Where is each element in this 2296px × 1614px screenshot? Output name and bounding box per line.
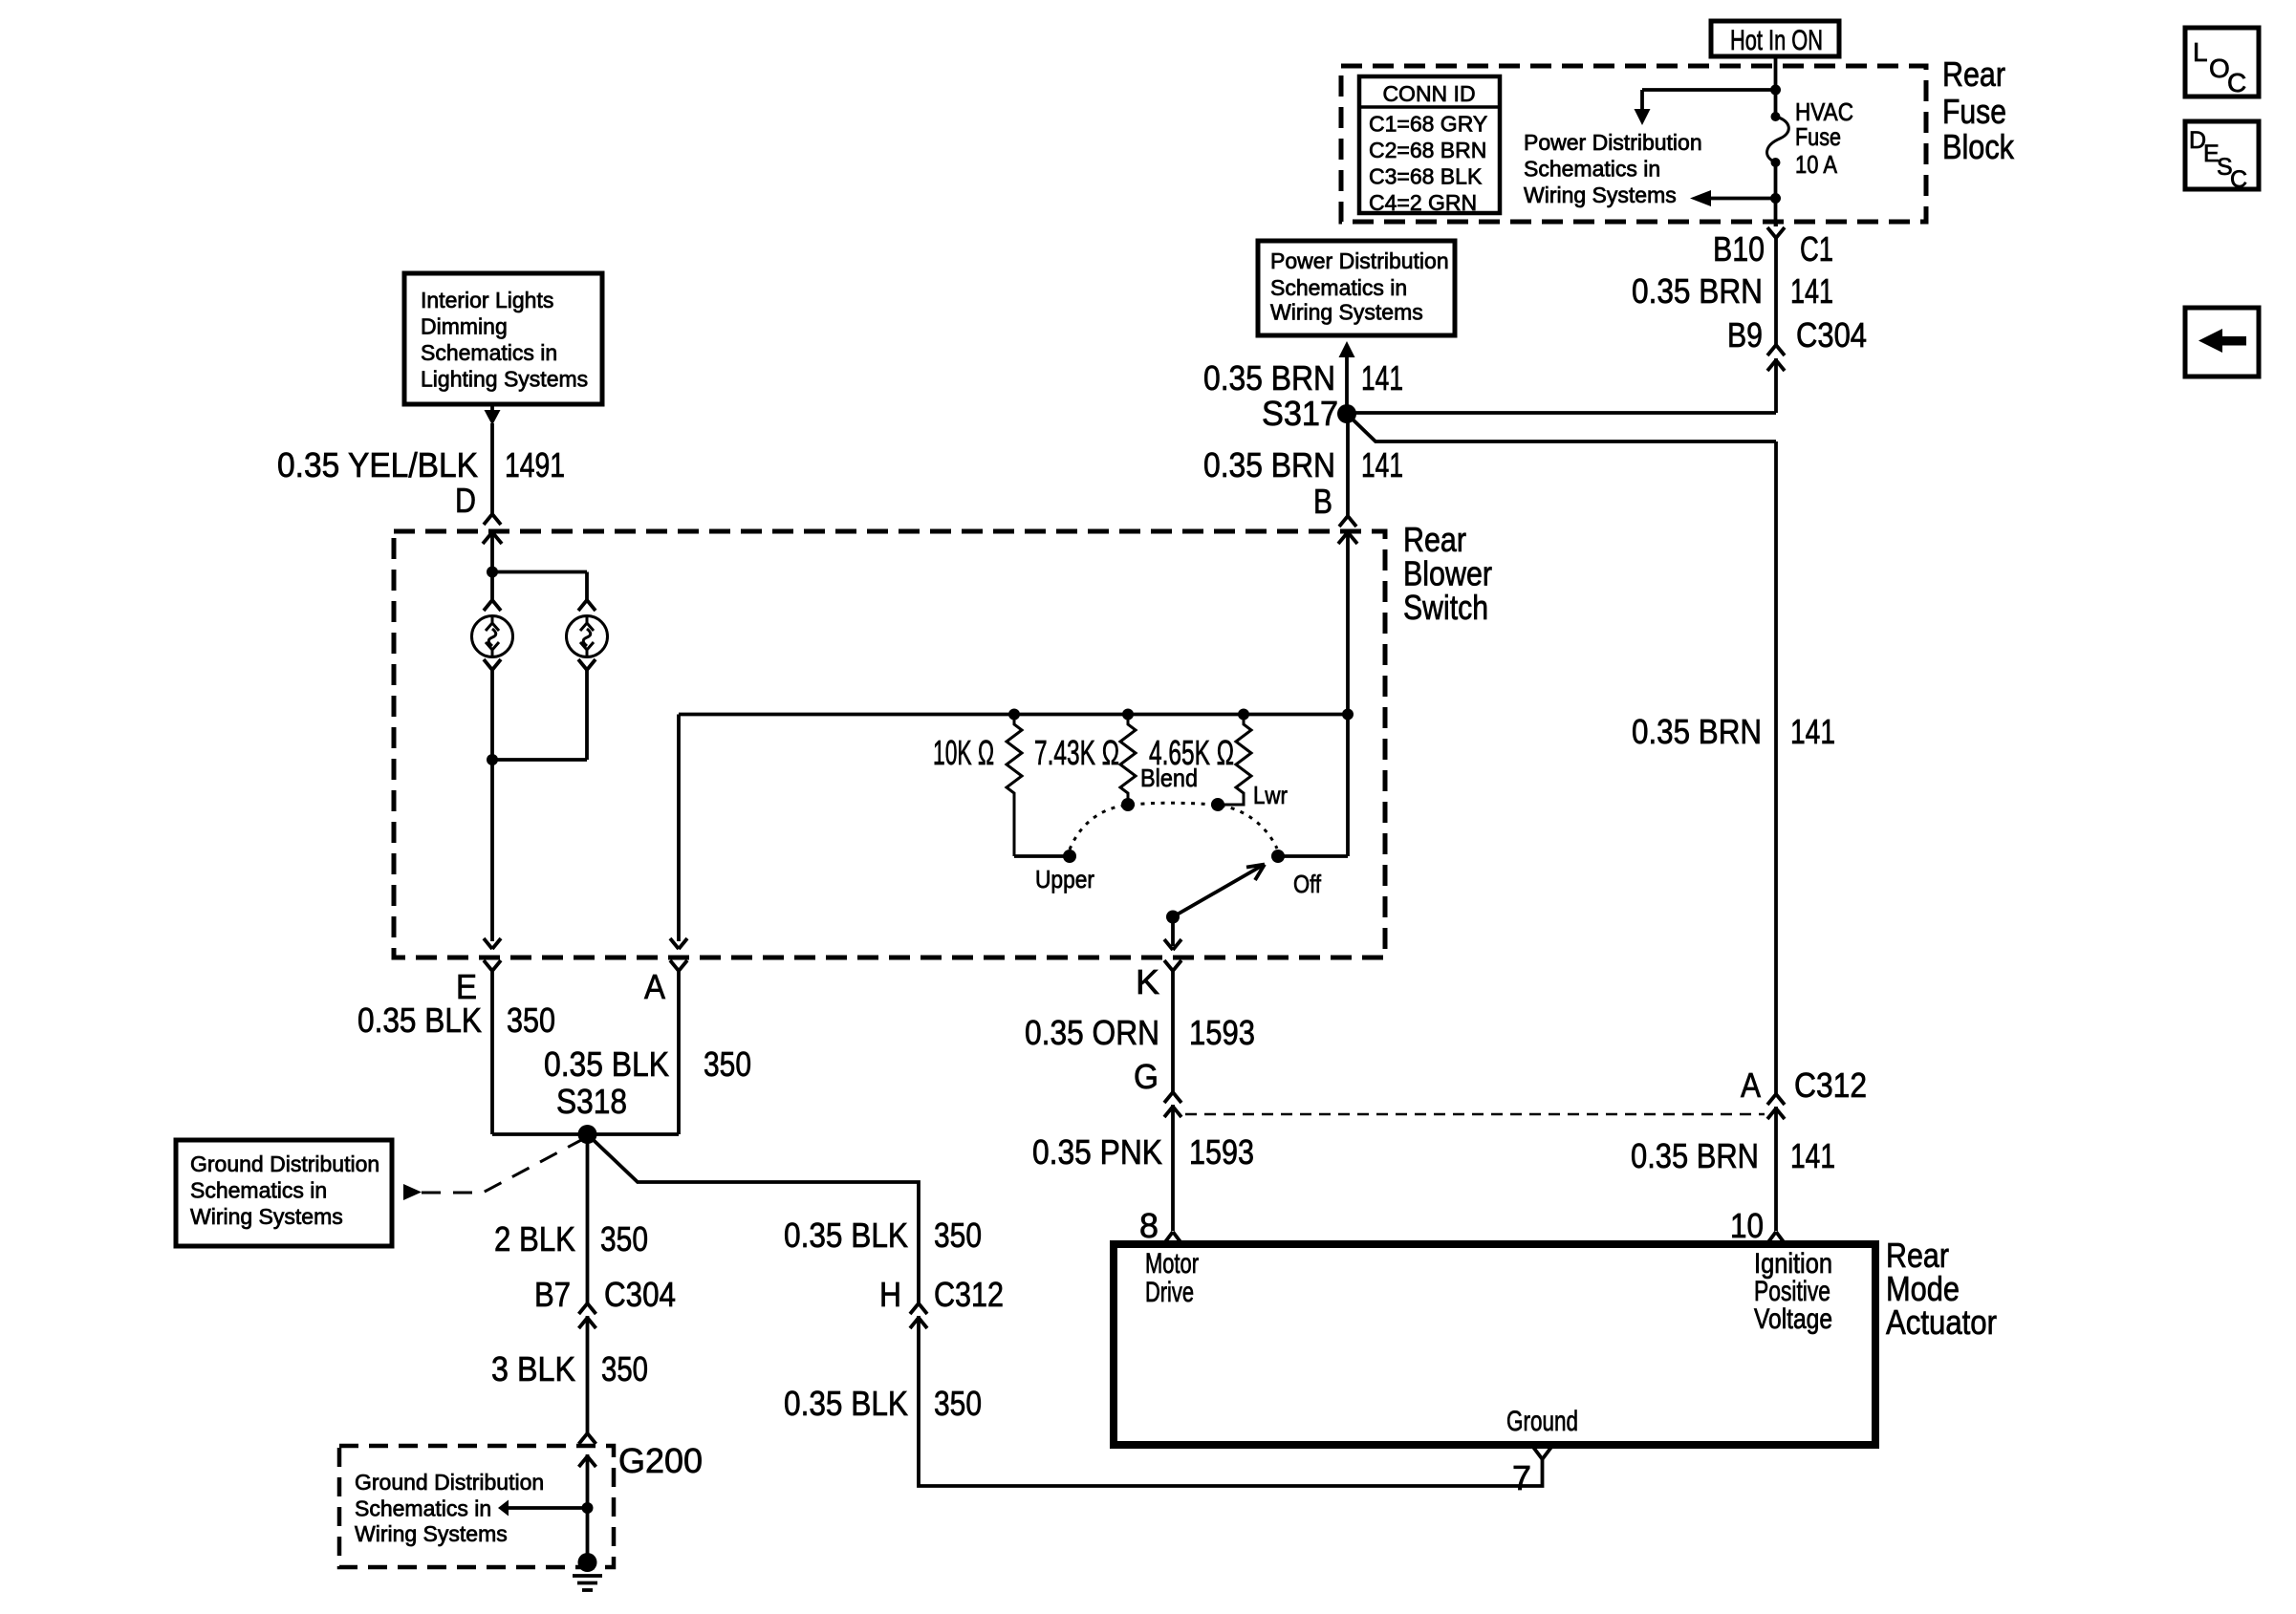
resistor R 10K	[1007, 715, 1022, 857]
node lamp bottom junction	[487, 754, 498, 765]
wire K down (0.35 ORN 1593)	[1171, 971, 1175, 1092]
svg-text:350: 350	[934, 1216, 982, 1255]
CONN ID table	[1359, 76, 1500, 215]
wire S318 down (2 BLK 350)	[586, 1134, 590, 1303]
node Lwr contact	[1211, 798, 1224, 811]
Rear Fuse Block dashed box	[1341, 66, 1926, 222]
Ground Distribution ref box (solid)	[176, 1140, 392, 1246]
svg-text:C3=68 BLK: C3=68 BLK	[1369, 164, 1483, 189]
node fuse feed junction	[1770, 85, 1781, 96]
svg-text:G200: G200	[618, 1441, 703, 1480]
svg-text:141: 141	[1790, 271, 1833, 311]
connector C312 pin A (right)	[1767, 1094, 1785, 1119]
wire Hot In ON to fuse	[1774, 56, 1778, 117]
wire H down to pin 7	[919, 1316, 1543, 1486]
wires into S318	[492, 1132, 588, 1136]
svg-text:Motor: Motor	[1145, 1248, 1199, 1280]
svg-text:Off: Off	[1293, 870, 1322, 898]
svg-text:Drive: Drive	[1145, 1277, 1194, 1308]
svg-text:0.35 BRN: 0.35 BRN	[1632, 271, 1763, 311]
svg-text:Lighting Systems: Lighting Systems	[421, 367, 588, 392]
wire A down	[677, 971, 681, 1134]
svg-text:Ground: Ground	[1506, 1406, 1578, 1437]
Rear Fuse Block label	[1942, 54, 2015, 166]
Hot In ON box	[1711, 21, 1839, 56]
node Off contact	[1271, 850, 1285, 863]
pin K fork below	[1164, 960, 1181, 971]
svg-text:B: B	[1313, 482, 1332, 521]
wire left w/ arrow	[508, 1506, 588, 1510]
svg-text:0.35 BRN: 0.35 BRN	[1631, 1136, 1759, 1175]
svg-text:Schematics in: Schematics in	[421, 340, 557, 365]
svg-text:C2=68 BRN: C2=68 BRN	[1369, 138, 1486, 162]
svg-text:1491: 1491	[505, 445, 565, 484]
svg-text:1593: 1593	[1189, 1132, 1254, 1172]
svg-text:Power Distribution: Power Distribution	[1270, 248, 1449, 273]
wire D to lamp junction	[490, 532, 494, 600]
svg-text:2 BLK: 2 BLK	[494, 1219, 575, 1259]
svg-text:7: 7	[1512, 1458, 1531, 1497]
svg-text:4.65K Ω: 4.65K Ω	[1149, 733, 1234, 772]
svg-text:0.35 YEL/BLK: 0.35 YEL/BLK	[277, 445, 478, 484]
svg-text:Fuse: Fuse	[1942, 92, 2006, 131]
wire E down	[490, 971, 494, 1134]
svg-text:0.35 BRN: 0.35 BRN	[1203, 445, 1335, 484]
svg-text:B7: B7	[534, 1275, 571, 1314]
svg-text:0.35 BLK: 0.35 BLK	[544, 1044, 669, 1084]
svg-text:B10: B10	[1713, 229, 1765, 269]
svg-text:7.43K Ω: 7.43K Ω	[1034, 733, 1119, 772]
dashed ref link to S318 with arrow	[403, 1184, 422, 1200]
wire fuse down	[1774, 162, 1778, 226]
wire Off to B riser	[1278, 854, 1348, 858]
pin 7 fork	[1534, 1448, 1551, 1459]
svg-text:CONN ID: CONN ID	[1382, 81, 1475, 106]
label 0.35 BRN 141 upper	[1203, 358, 1403, 398]
svg-text:10 A: 10 A	[1795, 150, 1838, 179]
svg-text:350: 350	[601, 1349, 648, 1388]
lamp L2	[567, 616, 608, 657]
svg-text:S318: S318	[556, 1082, 627, 1121]
wire branch left lower	[1710, 197, 1776, 201]
pin B arrow inside	[1338, 532, 1357, 544]
node S317	[1337, 404, 1356, 423]
svg-text:0.35 BLK: 0.35 BLK	[784, 1216, 908, 1255]
svg-text:C312: C312	[1794, 1065, 1867, 1105]
svg-text:350: 350	[600, 1219, 648, 1259]
node Upper contact	[1063, 850, 1076, 863]
pin D fork	[484, 514, 501, 525]
svg-text:H: H	[879, 1275, 901, 1314]
label 0.35 BRN 141 below S317	[1203, 445, 1403, 484]
svg-text:Hot In ON: Hot In ON	[1730, 25, 1823, 56]
Power Distribution ref box (mid)	[1258, 241, 1455, 335]
svg-text:350: 350	[507, 1001, 555, 1040]
LOC box	[2185, 28, 2259, 97]
connector C304 pin B7	[579, 1303, 596, 1328]
svg-text:Voltage: Voltage	[1754, 1303, 1832, 1335]
lamp L1	[472, 616, 513, 657]
Power Distribution note (in fuse block)	[1524, 130, 1702, 207]
arrow down (power distribution ref)	[1635, 109, 1651, 125]
svg-text:C: C	[2230, 166, 2247, 193]
arrow left (power distribution ref)	[1690, 190, 1711, 206]
wire A down (0.35 BRN 141)	[1774, 1107, 1778, 1231]
svg-text:S317: S317	[1262, 394, 1338, 433]
pin 8 fork	[1164, 1232, 1181, 1243]
wire B9 down to S317	[1774, 358, 1778, 413]
switch arm with arrow	[1173, 865, 1265, 917]
wire S317 diagonal to long riser	[1347, 414, 1776, 441]
node lamp top junction	[487, 567, 498, 578]
svg-text:Switch: Switch	[1403, 588, 1488, 627]
svg-text:B9: B9	[1727, 315, 1763, 355]
svg-text:Fuse: Fuse	[1795, 122, 1841, 151]
svg-text:G: G	[1134, 1057, 1159, 1096]
svg-text:Schematics in: Schematics in	[355, 1496, 491, 1521]
lamp L1 fork top	[484, 600, 501, 611]
svg-text:Schematics in: Schematics in	[190, 1178, 327, 1203]
svg-text:350: 350	[704, 1044, 751, 1084]
svg-text:C4=2 GRN: C4=2 GRN	[1369, 190, 1477, 215]
svg-text:Upper: Upper	[1035, 865, 1094, 893]
wire pin B down to bus	[1346, 532, 1350, 715]
node Blend contact	[1121, 798, 1135, 811]
svg-text:Lwr: Lwr	[1253, 781, 1288, 809]
ground G200 symbol	[573, 1553, 602, 1590]
pin E arrow inside	[484, 938, 501, 949]
DESC box	[2185, 121, 2259, 193]
svg-text:K: K	[1136, 962, 1159, 1001]
connector C304 pin B9	[1767, 345, 1785, 371]
pin E fork below	[484, 960, 501, 971]
svg-text:10: 10	[1730, 1206, 1764, 1245]
connector pin B fork	[1339, 516, 1356, 527]
Ground Distribution dashed box	[339, 1446, 614, 1567]
svg-text:0.35 ORN: 0.35 ORN	[1025, 1013, 1159, 1052]
wire A riser inside	[677, 715, 681, 942]
svg-text:C: C	[2227, 68, 2246, 97]
svg-text:Wiring Systems: Wiring Systems	[1524, 183, 1677, 207]
svg-text:Schematics in: Schematics in	[1524, 157, 1660, 182]
wire pivot down to pin K	[1171, 917, 1175, 947]
back-arrow box	[2185, 308, 2259, 377]
svg-text:Power Distribution: Power Distribution	[1524, 130, 1702, 155]
svg-text:C312: C312	[934, 1275, 1004, 1314]
svg-text:0.35 BLK: 0.35 BLK	[357, 1001, 482, 1040]
svg-text:8: 8	[1139, 1206, 1159, 1245]
resistor bus	[679, 713, 1348, 717]
svg-text:Dimming: Dimming	[421, 314, 508, 339]
svg-text:A: A	[644, 967, 665, 1006]
pin A fork below	[670, 960, 687, 971]
svg-text:Ground Distribution: Ground Distribution	[355, 1470, 544, 1495]
connector C1 pin B10	[1767, 222, 1785, 238]
Interior Lights ref box	[404, 273, 602, 404]
node S318	[578, 1125, 597, 1144]
connector C312 pin G	[1164, 1092, 1181, 1117]
wire S318 to H riser	[588, 1134, 920, 1303]
wire branch left	[1642, 88, 1776, 92]
pin 10 fork	[1767, 1232, 1785, 1243]
svg-text:0.35 PNK: 0.35 PNK	[1032, 1132, 1162, 1172]
svg-text:141: 141	[1361, 445, 1403, 484]
svg-text:141: 141	[1790, 1136, 1835, 1175]
svg-text:Rear: Rear	[1942, 54, 2005, 94]
wire S317 up to box with arrow	[1345, 355, 1349, 414]
svg-text:C304: C304	[604, 1275, 676, 1314]
svg-text:D: D	[455, 481, 476, 520]
wire G down (0.35 PNK 1593)	[1171, 1105, 1175, 1231]
node wiper pivot	[1166, 911, 1180, 924]
connector G200	[579, 1433, 596, 1467]
svg-text:0.35 BRN: 0.35 BRN	[1632, 712, 1762, 751]
svg-text:Ground Distribution: Ground Distribution	[190, 1151, 379, 1176]
wire B10 to B9, 0.35 BRN 141	[1774, 238, 1778, 345]
wire 10K to Upper contact	[1014, 854, 1070, 858]
svg-text:0.35 BRN: 0.35 BRN	[1203, 358, 1335, 398]
svg-text:1593: 1593	[1189, 1013, 1255, 1052]
pin K arrow inside	[1164, 939, 1181, 950]
switch wiper arc (dotted)	[1070, 803, 1277, 850]
svg-text:0.35 BLK: 0.35 BLK	[784, 1384, 908, 1423]
dashed C312 connector line	[1185, 1113, 1765, 1116]
resistor R 4.65K (Lwr)	[1218, 715, 1251, 806]
label 0.35 YEL/BLK 1491	[277, 445, 565, 484]
svg-text:Wiring Systems: Wiring Systems	[190, 1204, 343, 1229]
wire lamp branch top	[492, 570, 587, 574]
lamp L1 fork bottom	[484, 659, 501, 670]
wire S317 down to pin B	[1346, 414, 1350, 516]
svg-text:Wiring Systems: Wiring Systems	[1270, 300, 1423, 325]
fuse F1 HVAC 10A	[1767, 97, 1853, 179]
svg-text:3 BLK: 3 BLK	[491, 1349, 575, 1388]
connector C312 pin H	[910, 1303, 927, 1328]
wire box down w/ arrow	[490, 404, 494, 411]
wire lamps to bottom junction	[490, 670, 494, 941]
lamp L2 fork bottom	[578, 659, 596, 670]
wire G200 inside	[586, 1454, 590, 1558]
svg-text:Actuator: Actuator	[1886, 1302, 1997, 1342]
svg-text:C1=68 GRY: C1=68 GRY	[1369, 112, 1487, 137]
svg-text:141: 141	[1361, 358, 1403, 398]
svg-text:350: 350	[934, 1384, 982, 1423]
Rear Blower Switch dashed box	[394, 531, 1385, 958]
wire B7 down (3 BLK 350)	[586, 1316, 590, 1433]
svg-text:Interior Lights: Interior Lights	[421, 288, 553, 312]
svg-text:C304: C304	[1796, 315, 1867, 355]
pin A arrow inside	[670, 938, 687, 949]
svg-text:C1: C1	[1800, 229, 1833, 269]
svg-text:Schematics in: Schematics in	[1270, 275, 1407, 300]
svg-text:Wiring Systems: Wiring Systems	[355, 1521, 508, 1546]
lamp L2 fork top	[578, 600, 596, 611]
svg-text:Block: Block	[1942, 127, 2015, 166]
svg-text:10K Ω: 10K Ω	[933, 733, 994, 772]
svg-text:L: L	[2193, 37, 2208, 67]
svg-text:141: 141	[1790, 712, 1835, 751]
node ref junction	[582, 1502, 594, 1514]
Rear Mode Actuator box	[1114, 1244, 1875, 1445]
pin D arrow inside	[483, 532, 502, 544]
node bottom branch junction	[1770, 193, 1781, 204]
svg-text:A: A	[1741, 1065, 1761, 1105]
resistor R 7.43K (Blend)	[1120, 715, 1136, 806]
